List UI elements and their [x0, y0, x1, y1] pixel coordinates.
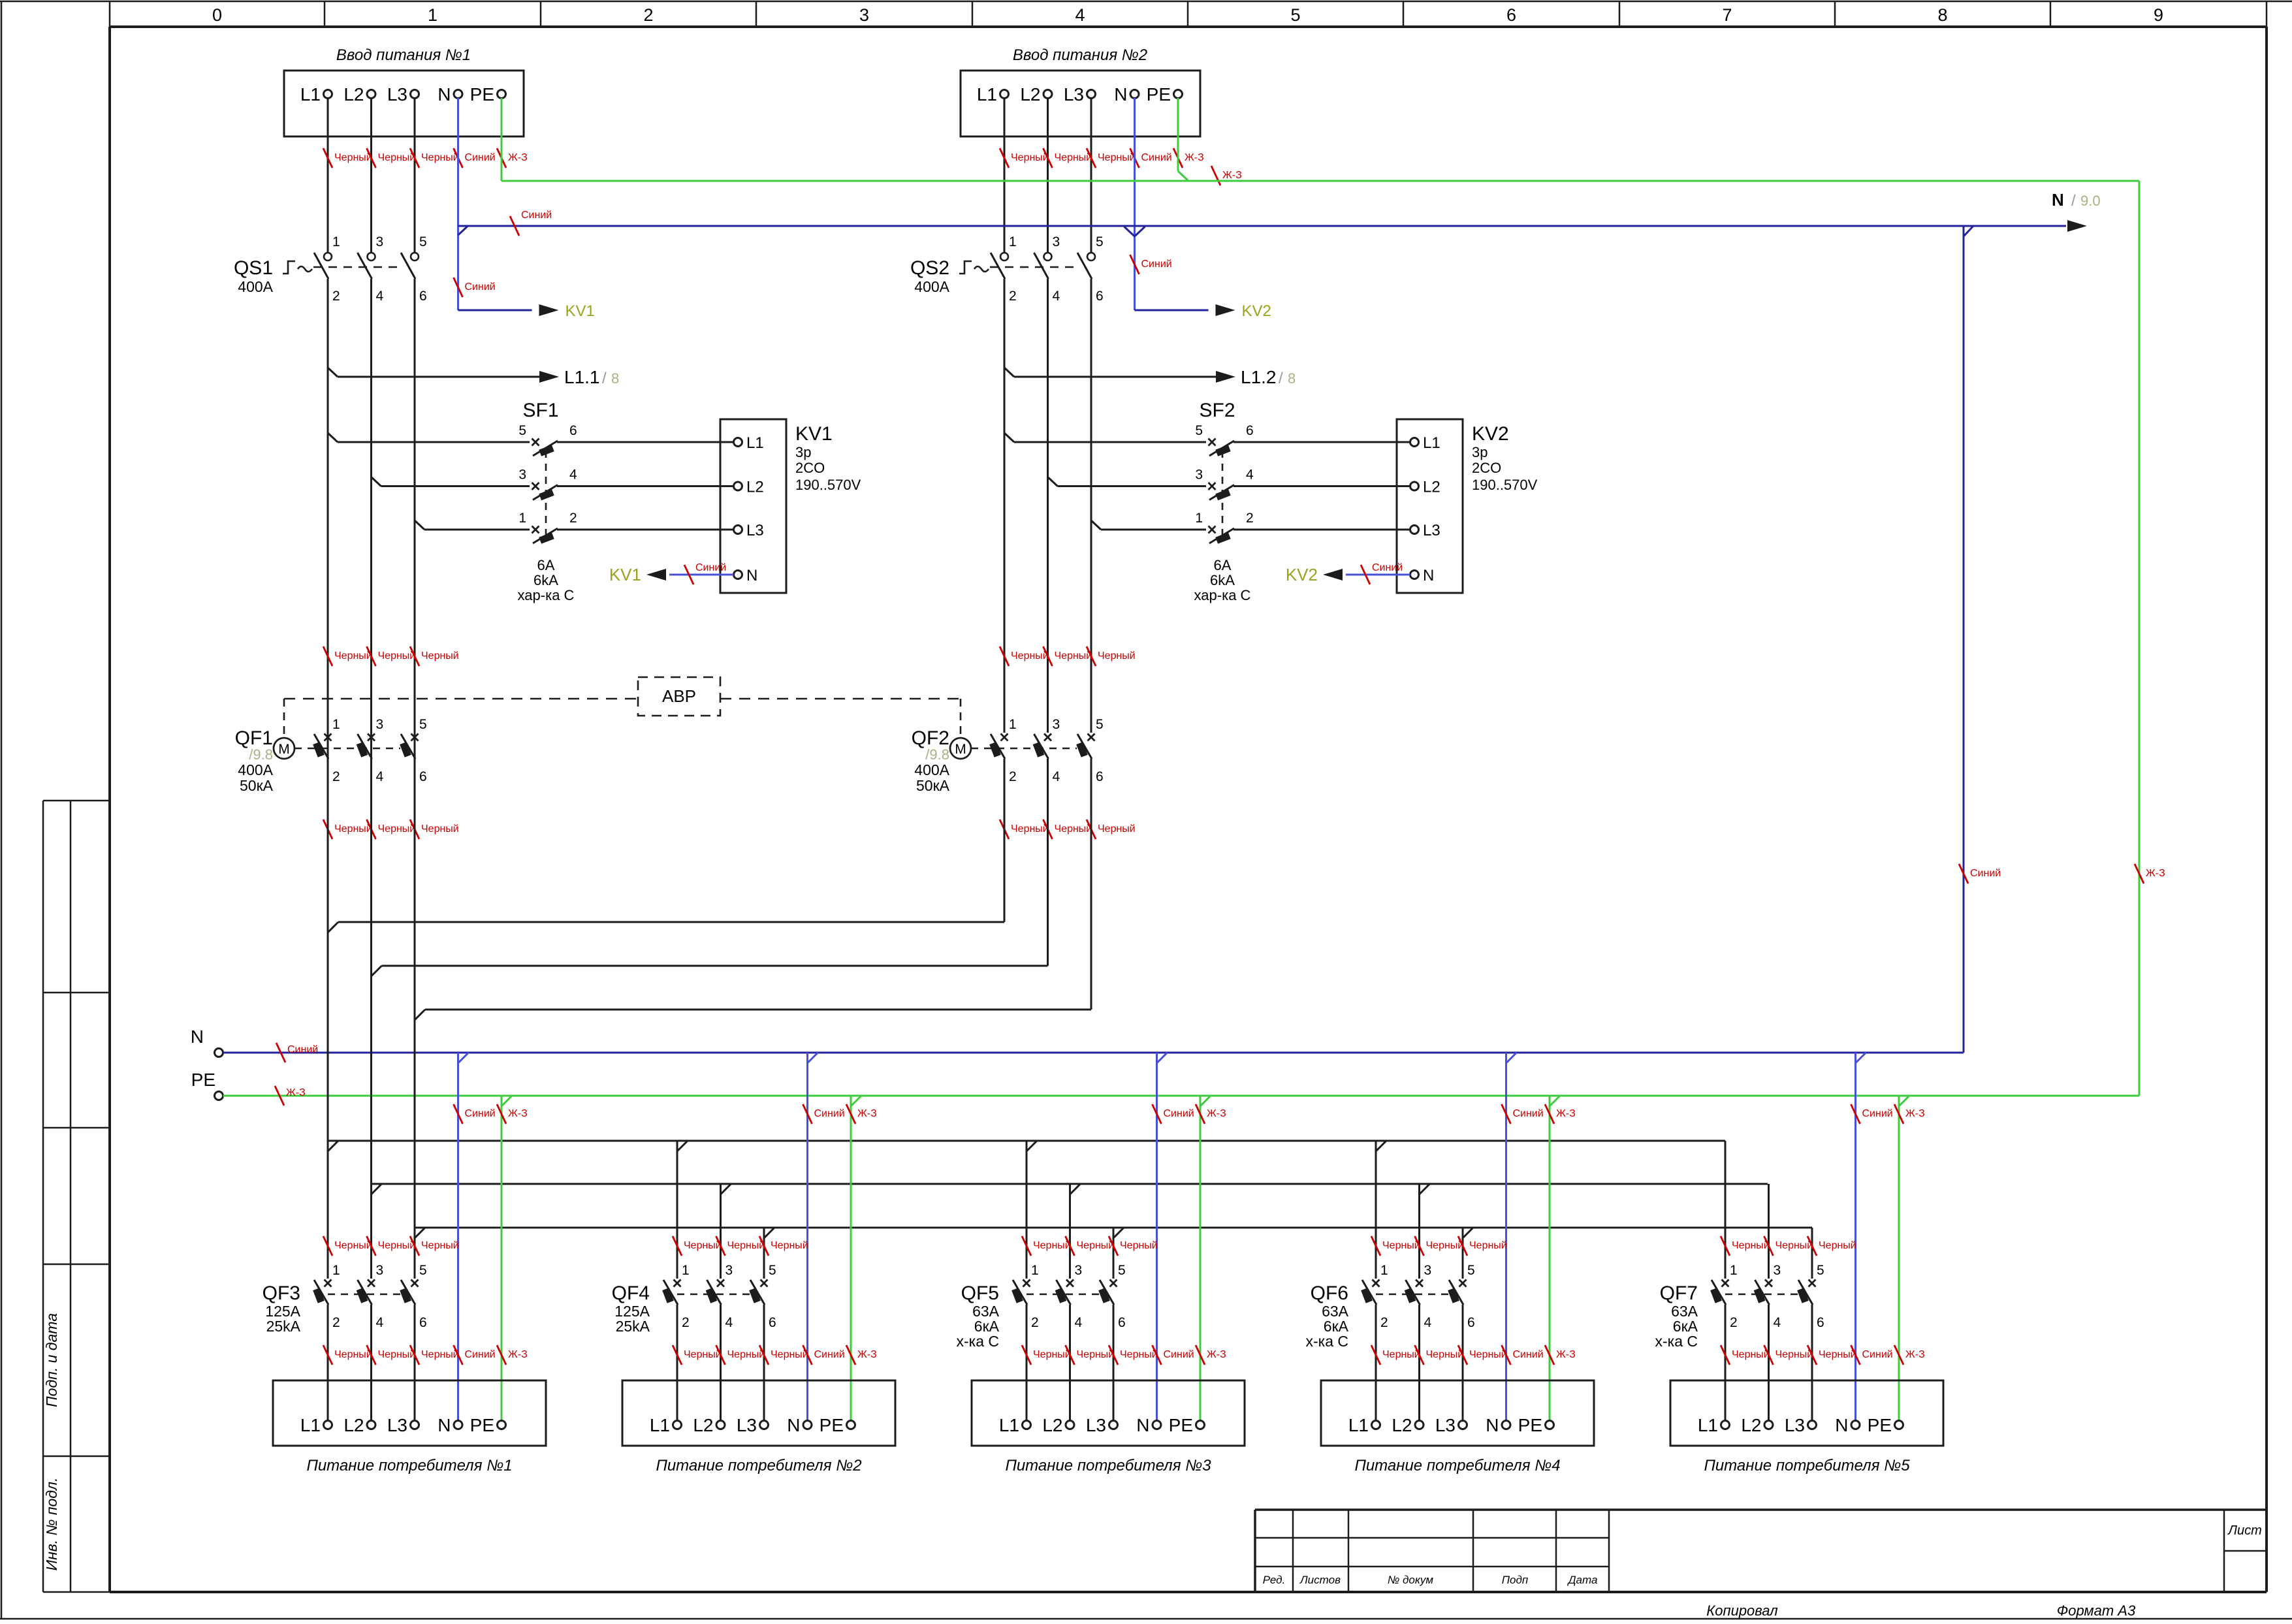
wire QS2 outputs down — [1004, 279, 1091, 733]
svg-text:2: 2 — [1730, 1315, 1738, 1330]
svg-text:/: / — [2071, 192, 2076, 210]
wire phase drops to QF5 — [1027, 1141, 1124, 1279]
breaker QF3 — [263, 1263, 427, 1421]
wire L3 phase input 2 — [1090, 98, 1092, 253]
svg-text:3p: 3p — [1472, 444, 1488, 460]
svg-text:4: 4 — [376, 289, 384, 304]
svg-text:N: N — [787, 1415, 800, 1435]
svg-text:Черный: Черный — [1055, 152, 1092, 163]
svg-text:4: 4 — [569, 468, 577, 483]
svg-text:хар-ка С: хар-ка С — [518, 587, 575, 603]
svg-text:Синий: Синий — [521, 210, 552, 221]
svg-text:2: 2 — [1031, 1315, 1039, 1330]
wire colour labels above QF4 — [673, 1236, 808, 1256]
svg-text:6: 6 — [419, 1315, 427, 1330]
svg-text:L2: L2 — [1020, 84, 1040, 104]
svg-text:5: 5 — [1118, 1263, 1126, 1278]
ABP box АВР — [638, 677, 720, 716]
wire phase drops to QF7 — [1725, 1141, 1812, 1279]
svg-text:Черный: Черный — [1732, 1349, 1770, 1360]
svg-text:Синий: Синий — [814, 1108, 845, 1119]
svg-text:Черный: Черный — [334, 152, 372, 163]
svg-text:4: 4 — [1053, 769, 1060, 784]
svg-text:Черный: Черный — [1382, 1349, 1420, 1360]
wire colour labels below QF3 — [323, 1345, 528, 1365]
wire colour labels above QF3 — [323, 1236, 459, 1256]
svg-text:/9.8: /9.8 — [249, 746, 273, 763]
svg-text:N: N — [1835, 1415, 1848, 1435]
svg-text:Синий: Синий — [465, 152, 496, 163]
svg-text:Ж-З: Ж-З — [1905, 1349, 1925, 1360]
main breaker QF1 with motor drive — [235, 717, 427, 794]
svg-text:3: 3 — [725, 1263, 733, 1278]
svg-text:8: 8 — [1937, 5, 1947, 25]
svg-text:L2: L2 — [1392, 1415, 1412, 1435]
svg-text:6: 6 — [1506, 5, 1516, 25]
svg-text:3: 3 — [1195, 468, 1203, 483]
svg-text:L2: L2 — [343, 84, 364, 104]
svg-text:6: 6 — [419, 769, 427, 784]
output terminal box "Питание потребителя №1" — [273, 1380, 546, 1474]
wire colour labels below QF4 — [673, 1345, 877, 1365]
svg-text:N: N — [438, 1415, 451, 1435]
svg-text:3: 3 — [1774, 1263, 1781, 1278]
title block — [1255, 1510, 2267, 1592]
output terminal box "Питание потребителя №3" — [972, 1380, 1245, 1474]
svg-text:PE: PE — [1518, 1415, 1542, 1435]
wire L2 phase input 1 — [370, 98, 372, 253]
svg-text:PE: PE — [470, 84, 494, 104]
svg-text:Черный: Черный — [684, 1349, 722, 1360]
svg-text:Синий: Синий — [1862, 1349, 1893, 1360]
svg-text:L1: L1 — [746, 434, 764, 452]
svg-text:6: 6 — [1096, 769, 1104, 784]
wire colour labels below input box 2 — [1000, 148, 1204, 168]
wire PE branch group 5 — [1894, 1096, 1925, 1421]
svg-text:1: 1 — [1009, 717, 1017, 732]
svg-text:Синий: Синий — [1513, 1108, 1544, 1119]
svg-text:Синий: Синий — [1970, 868, 2001, 879]
svg-text:QF3: QF3 — [263, 1282, 300, 1304]
svg-text:3: 3 — [859, 5, 869, 25]
svg-text:Ввод питания №1: Ввод питания №1 — [336, 46, 471, 64]
svg-text:L2: L2 — [693, 1415, 713, 1435]
svg-text:25kА: 25kА — [616, 1318, 650, 1335]
svg-text:3: 3 — [376, 717, 384, 732]
voltage relay KV1 box — [720, 419, 861, 593]
wire to KV1 arrow — [458, 302, 595, 320]
svg-text:Ж-З: Ж-З — [1905, 1108, 1925, 1119]
svg-text:L1: L1 — [1423, 434, 1440, 452]
svg-text:4: 4 — [1075, 5, 1085, 25]
svg-text:Черный: Черный — [1775, 1240, 1813, 1251]
svg-text:L3: L3 — [1435, 1415, 1456, 1435]
svg-text:Черный: Черный — [1055, 823, 1092, 835]
svg-text:Черный: Черный — [1469, 1240, 1507, 1251]
svg-text:QF7: QF7 — [1660, 1282, 1698, 1304]
svg-text:Черный: Черный — [1382, 1240, 1420, 1251]
svg-text:8: 8 — [1288, 370, 1296, 387]
svg-text:Ж-З: Ж-З — [286, 1087, 306, 1098]
wire colour labels below QF6 — [1371, 1345, 1576, 1365]
svg-text:Ж-З: Ж-З — [1207, 1108, 1226, 1119]
svg-text:L3: L3 — [746, 522, 764, 539]
svg-text:QF5: QF5 — [961, 1282, 999, 1304]
wire to KV2 arrow — [1135, 302, 1271, 320]
svg-text:8: 8 — [611, 370, 619, 387]
svg-text:PE: PE — [1147, 84, 1171, 104]
left margin stamp cells — [43, 801, 110, 1592]
svg-text:2CO: 2CO — [1472, 460, 1501, 476]
QS1 disconnector — [234, 234, 427, 304]
svg-text:/9.8: /9.8 — [925, 746, 949, 763]
wire colour labels below QF5 — [1022, 1345, 1226, 1365]
wire N branch group 1 — [454, 1053, 496, 1421]
svg-text:L1.2: L1.2 — [1241, 367, 1277, 387]
wire phase drops to QF4 — [677, 1141, 774, 1279]
svg-text:50кА: 50кА — [916, 777, 950, 794]
svg-text:Синий: Синий — [1141, 152, 1172, 163]
wire colour label Синий on N drop 2 — [1130, 255, 1172, 274]
svg-text:5: 5 — [769, 1263, 776, 1278]
breaker QF5 — [956, 1263, 1125, 1421]
svg-text:Синий: Синий — [1372, 562, 1403, 573]
node N-bus merge junction input 2 — [1124, 227, 1145, 236]
svg-text:N: N — [1486, 1415, 1499, 1435]
wire colour labels below QF2 — [1000, 820, 1136, 839]
wire N branch group 2 — [803, 1053, 845, 1421]
svg-text:2: 2 — [1246, 511, 1254, 526]
svg-text:1: 1 — [428, 5, 438, 25]
svg-text:Черный: Черный — [421, 650, 459, 661]
svg-text:PE: PE — [470, 1415, 494, 1435]
svg-text:/: / — [1279, 370, 1283, 387]
svg-text:Подп: Подп — [1502, 1574, 1529, 1586]
wire N branch group 5 — [1851, 1053, 1893, 1421]
svg-text:1: 1 — [1730, 1263, 1738, 1278]
svg-text:Синий: Синий — [1164, 1349, 1194, 1360]
svg-text:9.0: 9.0 — [2080, 193, 2101, 209]
svg-text:Синий: Синий — [814, 1349, 845, 1360]
wire QS1 outputs down — [328, 279, 415, 733]
svg-text:Черный: Черный — [1098, 823, 1136, 835]
svg-text:Ж-З: Ж-З — [2146, 868, 2165, 879]
wire PE branch group 4 — [1545, 1096, 1576, 1421]
wire N bus right drop — [1959, 226, 2001, 1053]
svg-text:QS1: QS1 — [234, 257, 273, 279]
svg-text:L2: L2 — [746, 479, 764, 496]
wire tie row L1 from QF2 — [328, 759, 1004, 932]
svg-text:N: N — [1114, 84, 1127, 104]
svg-text:QF6: QF6 — [1311, 1282, 1348, 1304]
wire colour labels above QF6 — [1371, 1236, 1507, 1256]
svg-text:L1: L1 — [977, 84, 997, 104]
footer captions — [1706, 1602, 2136, 1619]
svg-text:3: 3 — [376, 234, 384, 249]
svg-text:Питание потребителя №3: Питание потребителя №3 — [1005, 1457, 1211, 1474]
svg-text:Питание потребителя №2: Питание потребителя №2 — [656, 1457, 861, 1474]
svg-text:х-ка С: х-ка С — [1305, 1333, 1348, 1350]
svg-text:L3: L3 — [1064, 84, 1084, 104]
wire colour labels above QF2 — [1000, 646, 1136, 666]
wire colour labels below input box 1 — [323, 148, 528, 168]
wire KV1 N coil arrow — [609, 562, 734, 584]
svg-text:2: 2 — [332, 769, 340, 784]
svg-text:Питание потребителя №1: Питание потребителя №1 — [306, 1457, 512, 1474]
wire L3 phase input 1 — [414, 98, 416, 253]
svg-text:SF2: SF2 — [1199, 400, 1235, 421]
wire KV2 N coil arrow — [1286, 562, 1410, 584]
input terminal box "Ввод питания №1" — [284, 46, 524, 136]
svg-text:Черный: Черный — [727, 1349, 765, 1360]
svg-text:400А: 400А — [914, 761, 949, 778]
wire phase drops to QF3 — [328, 733, 415, 1279]
svg-text:Черный: Черный — [1033, 1240, 1071, 1251]
svg-text:2: 2 — [1380, 1315, 1388, 1330]
svg-text:3: 3 — [1053, 717, 1060, 732]
input terminal box "Ввод питания №2" — [961, 46, 1200, 136]
svg-text:M: M — [955, 742, 966, 757]
svg-text:Инв. № подл.: Инв. № подл. — [43, 1478, 60, 1571]
main breaker QF2 with motor drive — [912, 717, 1104, 794]
svg-text:1: 1 — [1009, 234, 1017, 249]
node N bus terminal — [191, 1027, 223, 1057]
svg-text:L1.1: L1.1 — [564, 367, 600, 387]
wire PE bus horizontal top — [501, 180, 2139, 182]
svg-text:Черный: Черный — [1819, 1349, 1856, 1360]
svg-text:Ред.: Ред. — [1263, 1574, 1286, 1586]
svg-text:Питание потребителя №5: Питание потребителя №5 — [1704, 1457, 1910, 1474]
svg-text:5: 5 — [1096, 717, 1104, 732]
wire L1 phase input 2 — [1004, 98, 1006, 253]
svg-text:Ж-З: Ж-З — [1556, 1349, 1576, 1360]
svg-text:1: 1 — [332, 234, 340, 249]
svg-text:Ж-З: Ж-З — [508, 1349, 528, 1360]
svg-text:4: 4 — [1246, 468, 1254, 483]
svg-text:N: N — [1136, 1415, 1149, 1435]
svg-text:M: M — [278, 742, 290, 757]
svg-text:6: 6 — [569, 423, 577, 438]
svg-text:1: 1 — [518, 511, 526, 526]
svg-text:QS2: QS2 — [910, 257, 949, 279]
svg-text:Черный: Черный — [1120, 1240, 1158, 1251]
svg-text:N: N — [746, 567, 757, 584]
svg-text:Черный: Черный — [334, 650, 372, 661]
svg-text:/: / — [602, 370, 607, 387]
svg-text:№ докум: № докум — [1388, 1574, 1434, 1586]
svg-text:L1: L1 — [300, 1415, 321, 1435]
svg-text:3: 3 — [1075, 1263, 1083, 1278]
svg-text:KV2: KV2 — [1242, 302, 1271, 320]
svg-text:Формат А3: Формат А3 — [2057, 1602, 2136, 1619]
svg-text:1: 1 — [332, 1263, 340, 1278]
svg-text:L2: L2 — [1741, 1415, 1761, 1435]
svg-text:2: 2 — [569, 511, 577, 526]
svg-text:190..570V: 190..570V — [1472, 477, 1538, 493]
svg-text:KV1: KV1 — [565, 302, 595, 320]
svg-text:Черный: Черный — [378, 1349, 416, 1360]
svg-text:Синий: Синий — [1862, 1108, 1893, 1119]
svg-text:KV2: KV2 — [1286, 565, 1318, 584]
wire colour label Синий on N drop 1 — [454, 278, 496, 297]
svg-text:4: 4 — [376, 769, 384, 784]
svg-text:6kА: 6kА — [1210, 572, 1235, 588]
svg-text:3p: 3p — [795, 444, 811, 460]
svg-text:4: 4 — [1774, 1315, 1781, 1330]
svg-text:L2: L2 — [1423, 479, 1440, 496]
svg-text:4: 4 — [725, 1315, 733, 1330]
svg-text:Черный: Черный — [727, 1240, 765, 1251]
svg-text:Черный: Черный — [1775, 1349, 1813, 1360]
svg-text:Ж-З: Ж-З — [508, 1108, 528, 1119]
svg-text:PE: PE — [1169, 1415, 1193, 1435]
svg-text:Черный: Черный — [334, 1240, 372, 1251]
svg-text:2: 2 — [332, 289, 340, 304]
svg-text:Черный: Черный — [1011, 823, 1049, 835]
svg-text:Черный: Черный — [1011, 152, 1049, 163]
svg-text:Лист: Лист — [2227, 1523, 2262, 1538]
svg-text:Черный: Черный — [1011, 650, 1049, 661]
svg-text:Ж-З: Ж-З — [857, 1108, 877, 1119]
svg-text:PE: PE — [820, 1415, 844, 1435]
svg-text:Черный: Черный — [1055, 650, 1092, 661]
svg-text:L1: L1 — [999, 1415, 1019, 1435]
svg-text:Черный: Черный — [1732, 1240, 1770, 1251]
svg-text:5: 5 — [419, 1263, 427, 1278]
svg-text:N: N — [438, 84, 451, 104]
svg-text:Черный: Черный — [771, 1240, 808, 1251]
wire PE bus bottom — [223, 1086, 2140, 1106]
svg-text:N: N — [1423, 567, 1434, 584]
node PE bus terminal — [191, 1070, 223, 1100]
QS2 disconnector — [910, 234, 1104, 304]
svg-text:Ж-З: Ж-З — [1185, 152, 1204, 163]
svg-text:Подп. и дата: Подп. и дата — [43, 1313, 60, 1407]
svg-text:Черный: Черный — [334, 1349, 372, 1360]
svg-text:L3: L3 — [1785, 1415, 1805, 1435]
svg-text:Черный: Черный — [771, 1349, 808, 1360]
svg-text:6А: 6А — [1214, 557, 1232, 573]
svg-text:Ввод питания №2: Ввод питания №2 — [1013, 46, 1147, 64]
circuit breaker SF1 — [328, 400, 734, 603]
svg-text:6А: 6А — [537, 557, 555, 573]
svg-text:2CO: 2CO — [795, 460, 825, 476]
svg-text:хар-ка С: хар-ка С — [1194, 587, 1251, 603]
svg-text:L1: L1 — [1698, 1415, 1718, 1435]
svg-text:1: 1 — [332, 717, 340, 732]
svg-text:Синий: Синий — [1164, 1108, 1194, 1119]
svg-text:Листов: Листов — [1299, 1574, 1341, 1586]
svg-text:5: 5 — [1467, 1263, 1475, 1278]
svg-text:Ж-З: Ж-З — [1222, 170, 1242, 181]
svg-text:Ж-З: Ж-З — [1556, 1108, 1576, 1119]
svg-text:Питание потребителя №4: Питание потребителя №4 — [1354, 1457, 1560, 1474]
svg-text:6: 6 — [1467, 1315, 1475, 1330]
voltage relay KV2 box — [1397, 419, 1538, 593]
wire N branch group 4 — [1502, 1053, 1544, 1421]
svg-text:7: 7 — [1722, 5, 1732, 25]
svg-text:Черный: Черный — [378, 650, 416, 661]
svg-text:Ж-З: Ж-З — [508, 152, 528, 163]
svg-text:50кА: 50кА — [240, 777, 274, 794]
svg-text:Черный: Черный — [1077, 1349, 1115, 1360]
svg-text:Дата: Дата — [1567, 1574, 1598, 1586]
svg-text:2: 2 — [1009, 289, 1017, 304]
wire N blue drop input 1 — [457, 98, 459, 310]
svg-text:N: N — [191, 1027, 204, 1047]
svg-text:5: 5 — [518, 423, 526, 438]
svg-text:Черный: Черный — [421, 152, 459, 163]
svg-text:9: 9 — [2154, 5, 2163, 25]
svg-text:2: 2 — [643, 5, 653, 25]
svg-text:3: 3 — [376, 1263, 384, 1278]
wire tie row L2 from QF2 — [372, 759, 1048, 976]
svg-text:6: 6 — [419, 289, 427, 304]
wire colour labels below QF7 — [1721, 1345, 1925, 1365]
svg-text:SF1: SF1 — [522, 400, 558, 421]
wire colour labels above QF1 — [323, 646, 459, 666]
svg-text:4: 4 — [1424, 1315, 1432, 1330]
wire PE branch group 1 — [497, 1096, 528, 1421]
svg-text:х-ка С: х-ка С — [956, 1333, 999, 1350]
breaker QF7 — [1655, 1263, 1824, 1421]
wire L1.1 feeder arrow — [328, 367, 619, 387]
svg-text:L2: L2 — [1042, 1415, 1062, 1435]
column ruler — [110, 1, 2267, 27]
wire PE green drop input 2 — [1178, 98, 1242, 185]
wire PE bus right drop — [2135, 181, 2165, 1096]
wire colour labels below QF1 — [323, 820, 459, 839]
svg-text:Черный: Черный — [1426, 1240, 1464, 1251]
svg-text:6: 6 — [1817, 1315, 1824, 1330]
svg-text:Черный: Черный — [1098, 650, 1136, 661]
svg-text:Черный: Черный — [684, 1240, 722, 1251]
node N-bus start junction — [458, 226, 468, 235]
svg-text:PE: PE — [1868, 1415, 1892, 1435]
svg-text:L3: L3 — [1086, 1415, 1106, 1435]
wire tie row L3 from QF2 — [415, 759, 1091, 1020]
svg-text:Копировал: Копировал — [1706, 1602, 1777, 1619]
svg-text:KV1: KV1 — [609, 565, 641, 584]
svg-text:Ж-З: Ж-З — [1207, 1349, 1226, 1360]
svg-text:Синий: Синий — [465, 281, 496, 293]
svg-text:400А: 400А — [238, 278, 273, 295]
svg-text:3: 3 — [1424, 1263, 1432, 1278]
svg-text:6kА: 6kА — [533, 572, 558, 588]
svg-text:Синий: Синий — [695, 562, 726, 573]
wire colour labels above QF7 — [1721, 1236, 1856, 1256]
svg-text:25kА: 25kА — [266, 1318, 301, 1335]
svg-text:Черный: Черный — [378, 1240, 416, 1251]
svg-text:Синий: Синий — [287, 1044, 318, 1055]
svg-text:5: 5 — [419, 234, 427, 249]
wire L1 phase input 1 — [327, 98, 329, 253]
wire N bus horizontal top — [458, 190, 2101, 232]
wire N bus bottom — [223, 1043, 1964, 1062]
svg-text:L3: L3 — [387, 84, 407, 104]
svg-text:L3: L3 — [737, 1415, 757, 1435]
svg-text:Синий: Синий — [465, 1108, 496, 1119]
svg-text:6: 6 — [1118, 1315, 1126, 1330]
svg-text:Черный: Черный — [1033, 1349, 1071, 1360]
svg-text:2: 2 — [682, 1315, 690, 1330]
svg-text:Черный: Черный — [421, 823, 459, 835]
svg-text:5: 5 — [1290, 5, 1300, 25]
svg-text:Синий: Синий — [1513, 1349, 1544, 1360]
svg-text:QF4: QF4 — [612, 1282, 650, 1304]
svg-text:5: 5 — [1195, 423, 1203, 438]
svg-text:N: N — [2052, 190, 2064, 210]
